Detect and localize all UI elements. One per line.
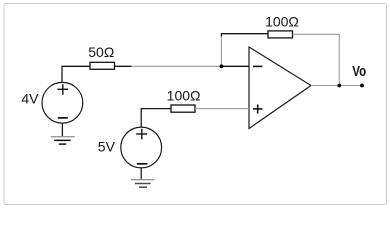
voltage source V1 4V bbox=[42, 82, 83, 123]
resistor R3 100ohm input bbox=[167, 87, 201, 112]
voltage source V2 5V bbox=[121, 127, 162, 168]
ground (5V source) bbox=[131, 180, 154, 188]
wire: 50ohm right stub (black) bbox=[115, 65, 132, 67]
svg-text:100Ω: 100Ω bbox=[265, 14, 299, 30]
pin label: non-inverting plus bbox=[253, 108, 262, 110]
node B: feedback/output junction bbox=[337, 84, 341, 88]
wire: gray segment to inverting junction bbox=[132, 65, 222, 67]
resistor R2 100ohm feedback bbox=[265, 14, 299, 38]
wire: 100ohm to op-amp plus input (gray) bbox=[195, 108, 249, 110]
wire: 5V source bottom to ground bbox=[140, 168, 142, 180]
svg-text:4V: 4V bbox=[21, 91, 39, 107]
wire: 4V source top vertical to inverting net bbox=[62, 66, 90, 82]
pin label: inverting minus bbox=[253, 65, 262, 67]
wire: junction to op-amp inverting input (black) bbox=[220, 65, 249, 67]
wire: op-amp output (gray) bbox=[311, 85, 362, 87]
svg-text:5V: 5V bbox=[98, 138, 116, 154]
svg-text:100Ω: 100Ω bbox=[167, 87, 201, 103]
wire: 5V source top elbow to 100ohm bbox=[141, 109, 171, 128]
ground (4V source) bbox=[51, 137, 75, 144]
wire: vertical gray riser to feedback branch bbox=[220, 36, 222, 66]
svg-text:50Ω: 50Ω bbox=[88, 44, 114, 60]
resistor R1 50ohm bbox=[88, 44, 114, 70]
node A: inverting input junction bbox=[220, 64, 224, 68]
node Vo terminal bbox=[360, 84, 364, 88]
wire: 4V source bottom to ground bbox=[61, 123, 63, 136]
wire: feedback resistor right to corner (gray) bbox=[293, 34, 340, 85]
wire: black elbow to feedback resistor bbox=[221, 34, 268, 37]
svg-text:Vo: Vo bbox=[352, 63, 366, 80]
op-amp U1 bbox=[249, 47, 311, 129]
